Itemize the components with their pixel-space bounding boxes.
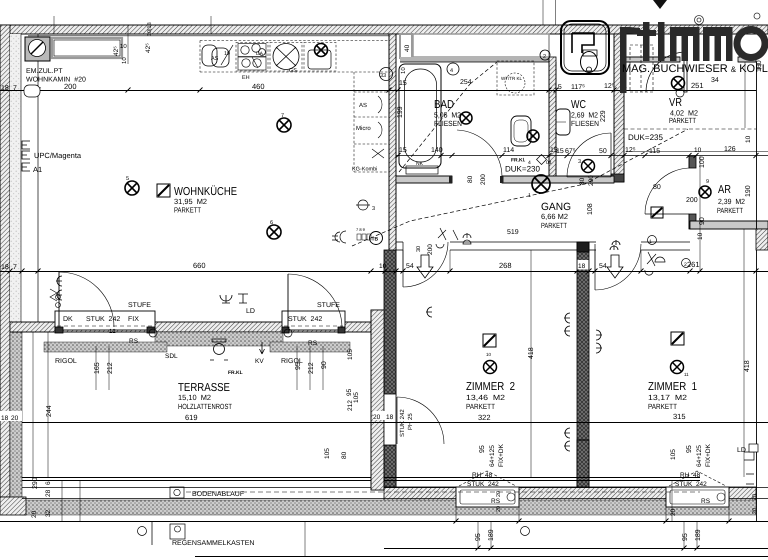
logo: registered mark top right [754,13,760,19]
svg-text:80: 80 [579,177,586,185]
symbol: 404 diamond gang [537,155,547,165]
svg-text:95: 95 [295,362,302,370]
svg-text:2: 2 [543,54,546,60]
svg-text:67⁵: 67⁵ [565,148,576,155]
door: gang to AR [645,168,689,214]
wall: corner pier at terrace/zimmer2 [371,310,396,336]
svg-text:200: 200 [64,82,77,91]
svg-text:189: 189 [488,529,495,541]
svg-text:6: 6 [45,481,52,485]
svg-text:10: 10 [486,352,492,357]
symbol: outlet glyphs gang left [436,228,446,248]
svg-text:20: 20 [373,414,381,421]
svg-text:15: 15 [556,148,564,155]
svg-text:20: 20 [670,508,677,516]
svg-text:200: 200 [588,175,595,186]
symbol: circle 2 wc top [540,50,550,60]
symbol: lamp zimmer2 [484,361,497,374]
svg-text:229: 229 [600,110,607,122]
fixture: NK box in bad [406,166,438,174]
fixture: chimney WOHNKAMIN gray block [25,37,50,61]
svg-text:WOHNKAMIN #20: WOHNKAMIN #20 [26,77,86,84]
svg-text:4: 4 [528,160,531,166]
svg-text:6,66 M2: 6,66 M2 [541,212,568,221]
svg-text:RS: RS [308,340,318,347]
fixture: bathtub [399,64,441,168]
symbol: outlet glyphs bedrooms [564,313,570,336]
wall: gang south wall (zimmer north wall) [396,241,403,243]
wall: left exterior wall hatched band [0,25,10,497]
wall: living room south wall band (to terrace) [10,322,371,332]
svg-text:244: 244 [46,405,53,417]
fixture: bodenablauf box [170,487,184,498]
svg-text:10: 10 [379,263,387,270]
window: terrace door-window left DK STUK 242 FIX [55,311,155,330]
symbol: circle 4 bad [447,63,459,75]
svg-text:322: 322 [478,413,491,422]
svg-text:28: 28 [45,489,52,497]
svg-text:STUK 242: STUK 242 [399,409,406,437]
svg-text:KV: KV [255,358,264,365]
wall: wc/vr divider wall [614,34,624,182]
door: wc door arc [567,133,611,177]
dim line: bottom row y548 [384,548,768,550]
svg-text:MAG. BUCHWIESER & KOFLER: MAG. BUCHWIESER & KOFLER [622,63,768,75]
door: apartment entry door with black leaf [684,49,687,92]
door: living room to terrace right, arc+leaf [287,274,289,328]
svg-text:12⁵: 12⁵ [604,83,615,90]
svg-text:105: 105 [324,448,331,459]
svg-text:418: 418 [528,347,535,359]
svg-text:PH 25: PH 25 [407,413,414,430]
dim line: AR vertical x700 [699,156,701,271]
symbol: circled 2 near 261 [682,259,691,268]
wall: bottom long line [0,521,768,523]
symbol: wall marks x70 y395 zimmer window ties [744,452,754,484]
svg-text:AS: AS [211,56,219,62]
dashed: window tilt marks zimmer1 [669,471,726,486]
wall: central vertical wall kitchen/bad/gang [389,34,396,322]
svg-text:33: 33 [380,73,386,79]
symbol: micro NS circle kitchen [356,200,370,210]
wall: entry corridor wall above VR [624,57,680,62]
wall: right edge line [756,62,758,521]
svg-text:DA: DA [256,51,264,57]
svg-text:A1: A1 [33,165,42,174]
wall: top exterior wall hatched band [0,25,768,34]
symbol: circled glyph at 526,531 [521,527,530,536]
svg-text:54: 54 [599,263,607,270]
svg-text:BODENABLAUF: BODENABLAUF [192,491,244,498]
svg-text:460: 460 [252,82,265,91]
symbol: threshold box on 200 dim line [24,85,40,97]
symbol: switches near bad door [463,233,471,244]
svg-text:STUK 242: STUK 242 [675,481,707,488]
dim line: terrace verticals [32,332,34,477]
svg-text:200: 200 [480,174,487,185]
fixture: wc washbasin [556,109,570,135]
svg-text:32: 32 [45,509,52,517]
fixture: kitchen counter dashed outline [200,41,389,73]
fixture: shower cabin with toilet (top) [561,21,609,74]
symbol: TB circle [370,232,383,245]
svg-text:DUK=230: DUK=230 [505,165,540,174]
svg-text:EM.ZUL.PT: EM.ZUL.PT [26,68,63,75]
symbol: lamp 6 living room lower [267,225,281,239]
svg-text:FR.Kl.: FR.Kl. [511,158,526,164]
dim line: zimmer1 vertical 418 [743,229,745,477]
svg-text:189: 189 [695,529,702,541]
svg-text:STUK 242: STUK 242 [467,481,499,488]
door: living room to terrace left, arc+leaf [58,272,60,327]
svg-text:GS: GS [289,68,297,74]
letter t [643,22,650,61]
svg-text:117⁵: 117⁵ [571,84,585,91]
door: gang to zimmer2 [403,242,448,287]
svg-text:115: 115 [649,148,660,155]
svg-text:FR.KL: FR.KL [228,370,243,376]
svg-text:RS: RS [701,498,711,505]
symbol: entrance arrow zimmer1 [607,255,623,278]
wall: AR north wall [396,155,768,157]
svg-text:04: 04 [546,160,552,166]
dim ticks bottom [454,519,732,551]
svg-text:FLIESEN: FLIESEN [571,119,599,128]
svg-text:64+125: 64+125 [489,445,496,467]
fixture: cooktop EH dashed box with burners [236,43,268,72]
svg-text:5: 5 [126,176,129,182]
dim line: VR right vertical [744,62,746,128]
symbol: circled 1 below entry door [676,89,684,97]
svg-text:114: 114 [503,147,514,154]
svg-text:418: 418 [744,360,751,372]
svg-text:212: 212 [107,362,114,374]
symbol: lamp gang big [532,175,550,193]
symbol: LD table icons living room [220,295,232,303]
svg-text:200: 200 [427,244,434,255]
svg-text:80: 80 [653,184,661,191]
svg-text:STUK 242: STUK 242 [86,316,120,323]
svg-text:12: 12 [109,328,116,335]
wall: AR south wall [690,221,768,229]
wall: divider wall zimmer2/zimmer1 [577,242,589,487]
letter i [658,22,665,61]
window: zimmer2 terrace door recess [384,394,396,445]
svg-text:290: 290 [32,477,39,489]
symbol: KV arrow terrace [260,342,265,354]
door: gang to zimmer1 [595,244,641,290]
svg-text:EH: EH [242,75,250,81]
wall: terrace east wall hatched [371,310,384,490]
svg-text:20: 20 [752,494,758,500]
svg-text:251: 251 [691,81,704,90]
letter r with long descender [620,27,627,93]
svg-text:18: 18 [1,264,9,271]
dim line: zimmer2 vertical 418 [530,250,532,477]
svg-text:268: 268 [499,261,512,270]
symbol: left wall outlets at 275 [56,276,62,300]
svg-text:RS: RS [129,338,139,345]
wall: bottom stipple band full width [22,500,756,515]
svg-text:PARKETT: PARKETT [541,221,567,230]
svg-text:18: 18 [1,415,9,422]
svg-text:519: 519 [507,229,519,236]
svg-text:TB: TB [372,237,379,243]
svg-text:STUFE: STUFE [317,302,340,309]
svg-text:13,17 M2: 13,17 M2 [648,393,687,402]
svg-text:90: 90 [699,217,706,225]
dim line: chimney vertical x128 [127,25,129,64]
dim line: rooms width row y422.5 [22,422,768,424]
symbol: table icon terrace mid [413,485,415,487]
svg-text:WC: WC [571,99,586,111]
wall: bedrooms south wall hatched band [384,487,456,502]
wall: rigol stipple band right [270,342,350,352]
wall: bad north shaft cell 40 [400,34,412,58]
svg-text:AR: AR [718,184,731,196]
svg-text:RIGOL: RIGOL [55,358,77,365]
svg-text:140: 140 [431,147,443,154]
symbol: lamp bad [527,130,539,142]
symbol: crossed square zimmer1 [671,332,684,345]
fixture: sideboard next to chimney [52,38,122,58]
svg-text:42⁵: 42⁵ [113,46,120,56]
letter m 1 [670,27,700,61]
svg-text:64+125: 64+125 [696,445,703,467]
symbol: circle -33 kitchen wall [380,68,393,81]
letter o [734,26,768,61]
svg-text:7: 7 [13,264,17,271]
svg-text:18: 18 [386,414,394,421]
svg-text:PARKETT: PARKETT [669,116,696,125]
svg-text:DUK=235: DUK=235 [628,133,663,142]
svg-text:RS: RS [491,498,501,505]
svg-text:DK: DK [63,316,73,323]
svg-text:VR: VR [669,97,682,109]
fixture: dishwasher GS circle with X [270,43,302,72]
fixture: bad washbasin [511,116,531,146]
svg-text:LD: LD [246,308,255,315]
dim ticks y90 [36,88,627,93]
svg-text:50: 50 [599,148,607,155]
dim line: kitchen top row y90 [0,90,756,92]
svg-text:FIX: FIX [128,316,139,323]
svg-text:108: 108 [587,203,594,215]
svg-text:105: 105 [353,392,360,403]
svg-text:PARKETT: PARKETT [648,402,677,411]
svg-text:RH 48: RH 48 [680,472,701,479]
svg-text:15,10 M2: 15,10 M2 [178,393,211,402]
dim line: main horizontal y271 full width [0,271,768,273]
wall: rigol stipple band left [44,342,167,352]
svg-text:UPC/Magenta: UPC/Magenta [34,151,82,160]
logo: black arrow top [653,0,667,9]
dashed: kitchen counter right edge continuation [388,34,390,72]
svg-text:90: 90 [321,361,328,369]
svg-text:ZIMMER 1: ZIMMER 1 [648,381,697,393]
symbol: lamp 5 living room [125,181,139,195]
svg-text:105: 105 [347,349,354,360]
symbol: lamp bad 2 [460,112,472,124]
svg-text:13,46 M2: 13,46 M2 [466,393,505,402]
symbol: crossed square zimmer2 [483,334,496,347]
svg-text:Micro: Micro [356,125,371,132]
svg-text:KG-Kombi: KG-Kombi [352,167,377,173]
svg-text:PARKETT: PARKETT [174,206,201,215]
svg-text:18: 18 [578,263,586,270]
svg-text:6: 6 [270,220,273,226]
svg-text:95: 95 [479,445,486,453]
svg-text:15: 15 [399,147,407,154]
wall: left wall interior face line [37,34,39,322]
svg-text:10: 10 [694,147,702,154]
svg-text:30: 30 [416,246,422,252]
svg-text:190: 190 [745,185,752,197]
symbol: FR.KL chair icon terrace [214,344,225,355]
svg-text:1: 1 [649,239,652,245]
symbol: lamp zimmer1 [671,361,684,374]
svg-text:80: 80 [341,451,348,459]
svg-text:9: 9 [706,179,709,185]
dashed: DUK=235 diagonal through GANG to VR [352,129,688,246]
symbol: circled 1 on gang wall [648,236,657,245]
svg-text:ZIMMER 2: ZIMMER 2 [466,381,515,393]
wall: bad south wall [396,176,452,183]
svg-text:RH 48: RH 48 [472,472,493,479]
svg-text:SDL: SDL [165,353,178,360]
svg-text:200: 200 [686,197,698,204]
svg-text:660: 660 [193,261,206,270]
svg-text:7: 7 [281,113,284,119]
svg-text:BAD: BAD [434,99,454,111]
symbol: outlet glyphs gang wall right [610,240,620,250]
wall: left wall inner insulation line [10,34,21,331]
svg-text:1: 1 [528,193,531,199]
symbol: small boxes 789 left of TB [357,234,361,240]
dashed: window tilt marks zimmer2 [459,471,516,486]
svg-text:STUK 242: STUK 242 [288,316,322,323]
symbol: entrance arrow zimmer2 [417,255,433,278]
dashed: DUK=230 ceiling line across BAD [399,84,470,172]
symbol: lamp wc [582,160,595,173]
svg-text:FIX+DK: FIX+DK [498,443,505,467]
dashed: terrace bodenablauf line [186,491,700,493]
wall: left terrace wall inner stipple layer [10,331,22,497]
symbol: lamp vr main [672,77,685,90]
svg-text:212: 212 [347,400,354,411]
svg-text:80: 80 [467,175,474,183]
svg-text:STUFE: STUFE [128,302,151,309]
svg-text:42⁵: 42⁵ [145,43,152,53]
letter m 2 [703,27,733,61]
symbol: RS circles terrace windows [149,329,157,337]
wall: bad north duct strip [413,34,549,57]
window: terrace window right STUK 242 [282,311,345,330]
svg-text:AS: AS [359,102,367,109]
svg-text:11: 11 [684,372,689,377]
wall: left bottom pier [0,497,26,515]
svg-text:15: 15 [399,80,407,87]
svg-text:FIX+DK: FIX+DK [705,443,712,467]
symbol: UPC bracket symbols left wall [22,141,30,149]
symbol: left wall marks y295 [56,295,61,300]
window: zimmer1 south window [666,487,729,507]
logo: small circled mark [695,16,704,25]
svg-text:20: 20 [496,506,502,512]
svg-text:95: 95 [682,533,689,541]
wall: zimmer2 west wall (terrace side) [371,336,396,395]
svg-text:10: 10 [121,57,128,64]
svg-text:100: 100 [699,156,706,168]
svg-text:HOLZLATTENROST: HOLZLATTENROST [178,402,232,411]
symbol: crossed square wohnkueche label [157,184,170,197]
door: bad door arc [457,130,502,177]
wall: terrace bodenablauf strip lines [22,487,700,489]
svg-text:315: 315 [673,412,686,421]
svg-text:REGENSAMMELKASTEN: REGENSAMMELKASTEN [172,540,254,547]
svg-text:FLIESEN: FLIESEN [434,119,462,128]
svg-text:10: 10 [120,43,127,50]
fixture: kitchen sink [304,43,336,72]
door: zimmer2 to terrace [397,397,444,444]
svg-text:7: 7 [13,85,17,92]
symbol: lamp 7 living room [277,118,291,132]
svg-text:10|18: 10|18 [147,22,153,36]
svg-text:7 8 9: 7 8 9 [356,227,366,232]
wall: terrace south edge double line [22,477,700,479]
svg-text:10: 10 [697,232,704,240]
svg-text:105: 105 [670,449,677,460]
symbol: lamp ar [699,186,711,198]
fixture: tall appliance column dashed (AS/Micro/KG-Kombi) [354,72,389,172]
svg-text:15: 15 [554,84,562,91]
fixture: regensammelkasten box [170,524,185,539]
dim ticks y155 [396,153,759,158]
wall: terrace mid stipple band under living room wall [155,332,283,346]
svg-text:95: 95 [475,533,482,541]
svg-text:95: 95 [686,445,693,453]
wall: AR west wall with door opening [689,156,696,168]
svg-text:19: 19 [224,51,230,57]
svg-text:LD: LD [737,447,746,454]
svg-text:WT/TR KL: WT/TR KL [501,76,522,81]
svg-text:3: 3 [372,206,375,212]
svg-text:10: 10 [745,135,752,143]
svg-text:54: 54 [406,263,414,270]
svg-text:40: 40 [404,44,411,52]
symbol: electro panel box gang [651,207,663,218]
svg-text:261: 261 [687,260,700,269]
svg-text:20: 20 [752,508,758,514]
svg-text:3: 3 [578,159,581,165]
svg-text:PARKETT: PARKETT [717,206,743,215]
svg-text:4: 4 [450,68,453,74]
svg-text:18: 18 [1,85,9,92]
logo: rtimmo wordmark drawn manually [620,22,768,93]
svg-text:619: 619 [185,413,198,422]
dim line: gang door verticals [402,250,404,271]
svg-text:NK: NK [416,161,424,167]
svg-text:165: 165 [94,362,101,374]
symbol: ceiling lamp kitchen sink [315,44,328,57]
svg-text:20: 20 [496,491,502,497]
svg-text:20: 20 [11,415,19,422]
svg-text:12⁵: 12⁵ [625,147,636,154]
door: bad door opening caps [449,176,453,183]
svg-text:212: 212 [308,362,315,374]
svg-text:126: 126 [724,146,736,153]
svg-text:95: 95 [346,388,353,396]
